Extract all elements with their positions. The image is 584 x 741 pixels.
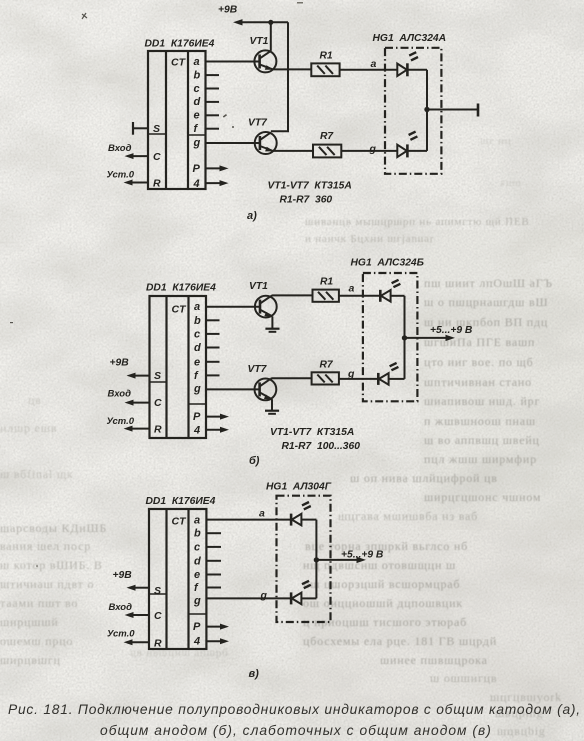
wire LED a to common bbox=[409, 69, 428, 71]
svg-text:4: 4 bbox=[193, 636, 200, 648]
svg-text:a: a bbox=[194, 56, 200, 68]
svg-text:DD1 К176ИЕ4: DD1 К176ИЕ4 bbox=[145, 39, 215, 50]
R input arrow (b) bbox=[124, 426, 150, 432]
svg-text:Вход: Вход bbox=[108, 143, 132, 154]
transistor VT7 (b) bbox=[255, 379, 277, 401]
svg-text:R7: R7 bbox=[320, 360, 334, 371]
LED segment a (b) bbox=[380, 280, 400, 302]
wire VT1 emitter down (b) bbox=[271, 316, 273, 328]
pin labels a-g P 4 (b) bbox=[193, 301, 201, 436]
wire LED g to common bbox=[409, 150, 428, 152]
pin stubs b-f bbox=[206, 75, 220, 129]
wire VT1 collector to rail bbox=[270, 22, 272, 51]
transistor VT1 bbox=[254, 50, 276, 72]
svg-text:VT1-VT7 КТ315А: VT1-VT7 КТ315А bbox=[270, 427, 354, 438]
junction common cathode bbox=[424, 107, 429, 112]
common output wire with terminal bbox=[427, 104, 478, 117]
Ust.0 label (v) bbox=[107, 629, 135, 640]
node g label bbox=[369, 143, 377, 155]
svg-text:а): а) bbox=[247, 210, 257, 222]
+9V label bbox=[218, 5, 238, 16]
wire VT7 collector feed bbox=[271, 22, 288, 131]
transistor VT7 label (b) bbox=[248, 364, 268, 375]
pin P output arrow (b) bbox=[206, 414, 229, 420]
svg-text:DD1 К176ИЕ4: DD1 К176ИЕ4 bbox=[146, 283, 216, 294]
node a label (b) bbox=[349, 283, 355, 295]
wire VT7 collector to R7 (b) bbox=[271, 377, 312, 380]
display HG1 dash-dot box bbox=[385, 48, 441, 174]
svg-text:d: d bbox=[194, 342, 201, 354]
pin stubs b-f (b) bbox=[206, 320, 220, 375]
svg-text:R: R bbox=[154, 638, 162, 650]
wire LED a to common (v) bbox=[301, 519, 316, 521]
+5...+9V supply label (b) bbox=[430, 325, 473, 336]
svg-text:g: g bbox=[260, 590, 268, 602]
resistor R7 (b) bbox=[312, 372, 339, 384]
pin labels a-g P 4 bbox=[193, 56, 201, 190]
R input arrow wire bbox=[124, 180, 149, 186]
svg-text:в): в) bbox=[249, 668, 260, 680]
svg-text:S: S bbox=[153, 123, 160, 135]
LED segment g (v) bbox=[291, 581, 311, 605]
svg-text:g: g bbox=[369, 143, 377, 155]
common cathode bus wire bbox=[426, 70, 428, 151]
IC DD1 K176IE4 outline (b) bbox=[150, 296, 207, 438]
display HG1 ALS324A label bbox=[373, 33, 447, 44]
node g label (b) bbox=[347, 368, 355, 380]
parts note R1-R7 (b) bbox=[282, 441, 361, 452]
svg-text:P: P bbox=[193, 621, 201, 633]
wire R1 to LED a bbox=[340, 69, 398, 71]
svg-text:+5...+9 В: +5...+9 В bbox=[430, 325, 473, 336]
svg-text:a: a bbox=[194, 301, 200, 313]
CT label (v) bbox=[172, 516, 188, 528]
+9V label (b) bbox=[110, 358, 130, 369]
svg-text:c: c bbox=[194, 541, 200, 553]
resistor R1 (b) bbox=[313, 290, 339, 302]
svg-text:а: а bbox=[259, 508, 265, 520]
svg-text:Уст.0: Уст.0 bbox=[107, 416, 135, 427]
junction on +9V rail bbox=[268, 20, 273, 25]
svg-text:S: S bbox=[154, 585, 161, 597]
wire R1 to LED a (b) bbox=[339, 295, 380, 297]
transistor VT7 label bbox=[248, 118, 268, 129]
svg-text:Уст.0: Уст.0 bbox=[107, 629, 135, 640]
pin P output arrow bbox=[206, 165, 229, 171]
pin stubs b-f (v) bbox=[206, 533, 221, 587]
transistor VT1 (b) bbox=[255, 296, 277, 318]
svg-text:R1-R7 360: R1-R7 360 bbox=[280, 195, 333, 206]
svg-text:d: d bbox=[194, 96, 201, 108]
resistor R1 label bbox=[320, 51, 333, 62]
svg-text:VT7: VT7 bbox=[248, 364, 268, 375]
svg-text:a: a bbox=[194, 515, 200, 527]
wire LED a to common (b) bbox=[391, 295, 405, 297]
svg-text:d: d bbox=[194, 555, 201, 567]
node a label (v) bbox=[259, 508, 265, 520]
IC DD1 label (b) bbox=[146, 283, 216, 294]
pin 4 output arrow (v) bbox=[206, 638, 229, 644]
svg-text:R1: R1 bbox=[320, 51, 333, 62]
Vhod label (b) bbox=[108, 389, 132, 400]
svg-text:+9В: +9В bbox=[218, 5, 238, 16]
wire LED g to common (v) bbox=[301, 597, 316, 599]
common anode bus wire (v) bbox=[315, 520, 317, 599]
Vhod label (v) bbox=[109, 602, 133, 613]
pin labels a-g P 4 (v) bbox=[193, 515, 201, 648]
resistor R1 label (b) bbox=[320, 277, 333, 288]
svg-text:c: c bbox=[194, 83, 200, 95]
Vhod label (C input) bbox=[108, 143, 132, 154]
node g label (v) bbox=[260, 590, 268, 602]
pin 4 output arrow (b) bbox=[206, 427, 229, 433]
wire LED g to common (b) bbox=[389, 378, 405, 380]
svg-text:+9В: +9В bbox=[110, 358, 130, 369]
svg-text:VT7: VT7 bbox=[248, 118, 268, 129]
svg-text:R: R bbox=[154, 424, 162, 436]
svg-text:VT1: VT1 bbox=[249, 281, 268, 292]
svg-text:Вход: Вход bbox=[108, 389, 132, 400]
wire chip pin a to VT1 base (b) bbox=[206, 306, 260, 308]
svg-text:CT: CT bbox=[171, 57, 187, 69]
Ust.0 label (b) bbox=[107, 416, 135, 427]
display HG1 AL304G label bbox=[266, 482, 332, 493]
transistor VT7 bbox=[255, 132, 277, 154]
svg-text:C: C bbox=[154, 610, 162, 622]
+9V rail wire with arrow bbox=[233, 19, 288, 25]
S input arrow (v) bbox=[127, 585, 150, 591]
svg-text:общим анодом (б), слаботочных: общим анодом (б), слаботочных с общим ан… bbox=[100, 723, 492, 738]
parts note VT1-VT7 bbox=[268, 181, 352, 192]
scan specks bbox=[10, 2, 303, 567]
svg-text:HG1 АЛ304Г: HG1 АЛ304Г bbox=[266, 482, 332, 493]
wire chip pin g to LED (v) bbox=[206, 597, 291, 599]
figure caption line 2 bbox=[100, 723, 492, 738]
ghost bleed-through text bbox=[0, 135, 562, 738]
node a label bbox=[371, 58, 377, 70]
common anode bus wire (b) bbox=[404, 296, 406, 379]
svg-text:b: b bbox=[194, 315, 201, 327]
IC DD1 label (v) bbox=[146, 496, 216, 507]
wire VT1 collector to R1 (b) bbox=[271, 294, 313, 297]
svg-text:Уст.0: Уст.0 bbox=[107, 170, 135, 181]
svg-text:R: R bbox=[153, 178, 161, 190]
figure caption line 1 bbox=[8, 702, 581, 717]
svg-text:b: b bbox=[194, 69, 201, 81]
ground VT7 (b) bbox=[265, 411, 279, 414]
svg-text:b: b bbox=[194, 528, 201, 540]
svg-text:C: C bbox=[153, 151, 161, 163]
pin 4 output arrow bbox=[206, 180, 229, 186]
pin labels S C R (v) bbox=[154, 585, 162, 650]
svg-text:Вход: Вход bbox=[109, 602, 133, 613]
svg-text:б): б) bbox=[249, 455, 260, 467]
svg-text:HG1 АЛС324Б: HG1 АЛС324Б bbox=[351, 258, 424, 269]
+9V label (v) bbox=[113, 570, 133, 581]
svg-text:g: g bbox=[193, 595, 201, 607]
sub-label b) bbox=[249, 455, 260, 467]
parts note VT1-VT7 (b) bbox=[270, 427, 354, 438]
LED segment g (b) bbox=[378, 363, 398, 385]
LED segment a (v) bbox=[291, 502, 311, 526]
svg-text:S: S bbox=[154, 370, 161, 382]
display HG1 ALS324B label bbox=[351, 258, 424, 269]
sub-label a) bbox=[247, 210, 257, 222]
wire VT1 emitter to R1 bbox=[273, 68, 311, 70]
supply wire arrow (v) bbox=[316, 557, 366, 563]
resistor R7 bbox=[313, 145, 341, 158]
svg-text:VT1: VT1 bbox=[250, 36, 269, 47]
pin P output arrow (v) bbox=[206, 624, 229, 630]
svg-text:DD1 К176ИЕ4: DD1 К176ИЕ4 bbox=[146, 496, 216, 507]
wire R7 to LED g (b) bbox=[339, 378, 378, 380]
svg-text:HG1 АЛС324А: HG1 АЛС324А bbox=[373, 33, 447, 44]
C input arrow (v) bbox=[125, 612, 150, 618]
svg-text:а: а bbox=[371, 58, 377, 70]
transistor VT1 label (b) bbox=[249, 281, 268, 292]
svg-text:VT1-VT7 КТ315А: VT1-VT7 КТ315А bbox=[268, 181, 352, 192]
svg-text:P: P bbox=[193, 163, 201, 175]
wire chip pin a to LED (v) bbox=[206, 519, 291, 521]
wire chip pin g to VT7 base (b) bbox=[206, 388, 260, 390]
C input arrow wire bbox=[125, 153, 149, 159]
wire R7 to LED g bbox=[341, 150, 397, 152]
svg-text:e: e bbox=[194, 569, 200, 581]
svg-text:g: g bbox=[347, 368, 355, 380]
CT label (b) bbox=[172, 304, 188, 316]
wire VT7 emitter to R7 bbox=[273, 150, 313, 152]
svg-text:4: 4 bbox=[193, 178, 200, 190]
resistor R7 label (b) bbox=[320, 360, 334, 371]
IC DD1 label bbox=[145, 39, 215, 50]
svg-text:R1: R1 bbox=[320, 277, 333, 288]
svg-text:CT: CT bbox=[172, 304, 188, 316]
pin labels S C R bbox=[153, 123, 161, 190]
svg-text:C: C bbox=[154, 397, 162, 409]
svg-text:Рис. 181. Подключение полупров: Рис. 181. Подключение полупроводниковых … bbox=[8, 702, 581, 717]
IC DD1 K176IE4 outline (v) bbox=[149, 509, 206, 649]
svg-text:e: e bbox=[194, 110, 200, 122]
svg-text:P: P bbox=[193, 411, 201, 423]
CT label bbox=[171, 57, 187, 69]
pin S input wire with tick bbox=[133, 122, 148, 135]
supply wire arrow (b) bbox=[405, 335, 456, 341]
svg-text:R7: R7 bbox=[320, 131, 334, 142]
svg-text:g: g bbox=[193, 137, 201, 149]
wire VT7 emitter down (b) bbox=[271, 399, 273, 410]
parts note R1-R7 bbox=[280, 195, 333, 206]
pin labels S C R (b) bbox=[154, 370, 162, 436]
IC DD1 K176IE4 outline bbox=[148, 51, 206, 189]
R input arrow (v) bbox=[124, 639, 150, 645]
LED segment g bbox=[397, 132, 417, 158]
display HG1 dash-dot box (v) bbox=[277, 496, 331, 622]
svg-text:+9В: +9В bbox=[113, 570, 133, 581]
+5...+9V supply label (v) bbox=[341, 550, 384, 561]
wire chip pin a to VT1 base bbox=[206, 61, 260, 63]
wire chip pin g to VT7 base bbox=[206, 142, 260, 144]
svg-text:e: e bbox=[194, 356, 200, 368]
LED segment a bbox=[397, 52, 418, 76]
junction common anode (b) bbox=[402, 335, 407, 340]
ground VT1 (b) bbox=[265, 329, 279, 332]
transistor VT1 label bbox=[250, 36, 269, 47]
junction common anode (v) bbox=[314, 557, 319, 562]
svg-text:g: g bbox=[193, 383, 201, 395]
display HG1 dash-dot box (b) bbox=[363, 273, 418, 401]
Ust.0 label (R input) bbox=[107, 170, 135, 181]
S input arrow (b) bbox=[127, 373, 150, 379]
sub-label v) bbox=[249, 668, 260, 680]
svg-text:c: c bbox=[194, 328, 200, 340]
resistor R7 label bbox=[320, 131, 334, 142]
C input arrow (b) bbox=[125, 400, 150, 406]
svg-text:4: 4 bbox=[193, 424, 200, 436]
resistor R1 bbox=[311, 63, 339, 76]
svg-text:а: а bbox=[349, 283, 355, 295]
svg-text:CT: CT bbox=[172, 516, 188, 528]
svg-text:R1-R7 100...360: R1-R7 100...360 bbox=[282, 441, 361, 452]
